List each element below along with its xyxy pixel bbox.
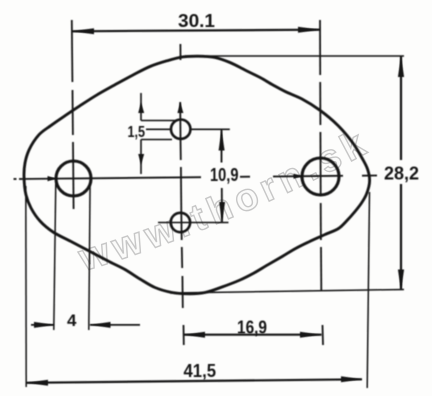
svg-text:28,2: 28,2: [384, 164, 419, 184]
svg-text:10,9: 10,9: [210, 165, 239, 185]
svg-text:16,9: 16,9: [237, 318, 267, 338]
svg-text:4: 4: [67, 311, 77, 330]
svg-text:1,5: 1,5: [128, 124, 146, 141]
svg-text:41,5: 41,5: [184, 361, 217, 381]
svg-text:30.1: 30.1: [178, 11, 215, 31]
